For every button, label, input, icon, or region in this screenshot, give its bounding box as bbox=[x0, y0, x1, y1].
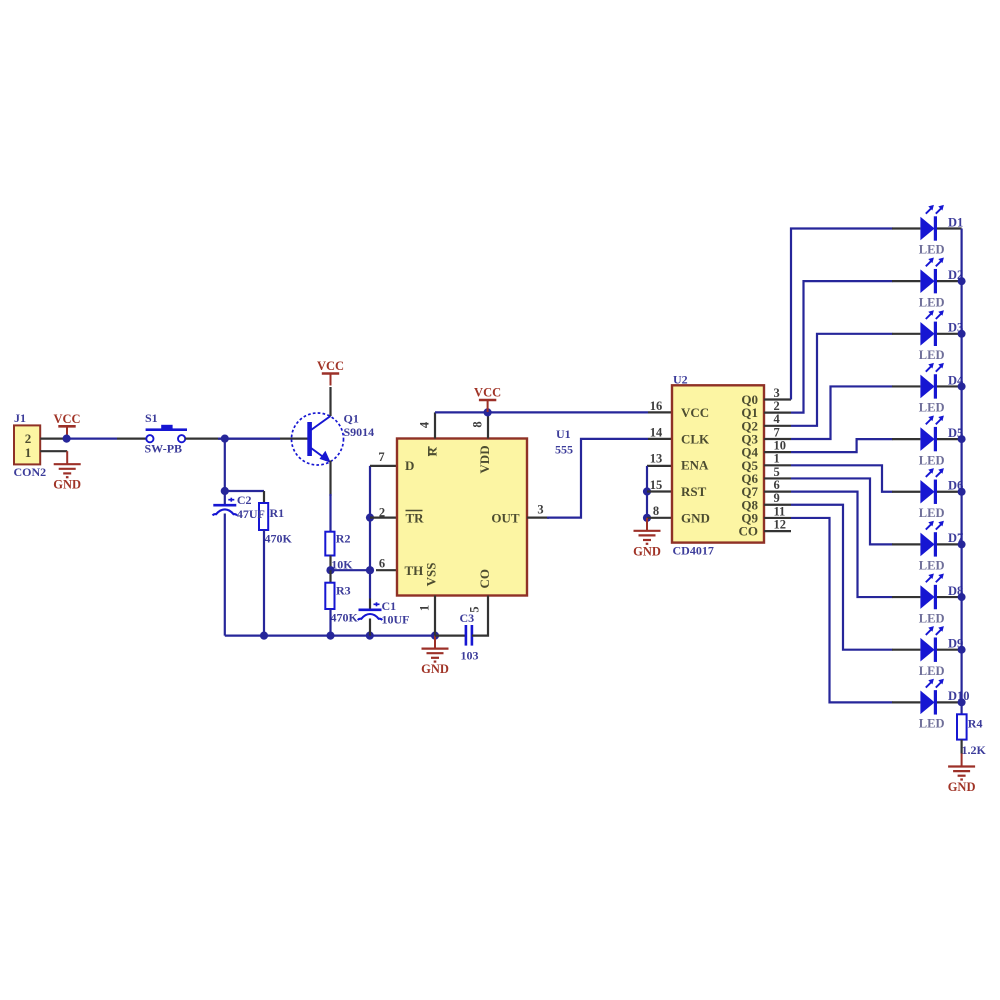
wire Q3 to LED D4 bbox=[791, 386, 893, 439]
svg-text:GND: GND bbox=[421, 662, 449, 676]
wire C2 to rail bbox=[224, 514, 226, 636]
junction C1 rail bbox=[366, 632, 374, 640]
svg-text:2: 2 bbox=[379, 505, 385, 519]
LED D7 bbox=[892, 521, 962, 557]
svg-text:7: 7 bbox=[378, 450, 384, 464]
svg-text:555: 555 bbox=[555, 443, 573, 457]
junction bus bbox=[958, 488, 966, 496]
op-amp U1 555 bbox=[397, 439, 527, 596]
svg-text:VCC: VCC bbox=[317, 359, 344, 373]
junction bus bbox=[958, 382, 966, 390]
svg-text:13: 13 bbox=[650, 452, 663, 466]
wire LED bus bbox=[960, 229, 962, 715]
wire U2 pin 12 stub bbox=[764, 530, 791, 532]
junction RST bbox=[643, 487, 651, 495]
svg-text:D1: D1 bbox=[948, 215, 963, 229]
ground at R4 bbox=[948, 754, 976, 795]
svg-text:3: 3 bbox=[537, 503, 543, 517]
svg-text:CO: CO bbox=[739, 524, 759, 539]
LED D9 bbox=[892, 626, 962, 662]
power VCC at 555 bbox=[474, 386, 501, 413]
svg-text:6: 6 bbox=[774, 478, 780, 492]
svg-text:GND: GND bbox=[53, 478, 81, 492]
wire U2 pin 7 stub bbox=[764, 438, 791, 440]
wire Q8 to LED D9 bbox=[791, 505, 893, 650]
wire R3 to rail bbox=[329, 609, 331, 636]
junction VCC node bbox=[63, 435, 71, 443]
transistor Q1 bbox=[292, 413, 344, 465]
svg-text:D: D bbox=[405, 458, 414, 473]
svg-text:9: 9 bbox=[774, 491, 780, 505]
svg-text:LED: LED bbox=[919, 295, 945, 309]
wire U2 pin 11 stub bbox=[764, 517, 791, 519]
svg-text:GND: GND bbox=[681, 510, 710, 525]
junction base node bbox=[221, 435, 229, 443]
wire Q1 to LED D2 bbox=[791, 281, 893, 413]
wire U2 pin 1 stub bbox=[764, 464, 791, 466]
wire pin8 U2 stub bbox=[647, 517, 672, 519]
svg-text:CD4017: CD4017 bbox=[673, 544, 714, 558]
svg-text:R2: R2 bbox=[336, 531, 351, 545]
wire Q1 base stub bbox=[283, 438, 308, 440]
junction VCC 555 bbox=[484, 408, 492, 416]
svg-text:VCC: VCC bbox=[474, 386, 501, 400]
junction bus bbox=[958, 435, 966, 443]
wire Q5 to LED D6 bbox=[791, 465, 893, 491]
wire node segment bbox=[218, 438, 280, 440]
svg-text:GND: GND bbox=[633, 544, 661, 558]
svg-text:4: 4 bbox=[774, 412, 781, 426]
svg-text:U2: U2 bbox=[673, 373, 688, 387]
LED D4 bbox=[892, 363, 962, 399]
wire U2 pin 9 stub bbox=[764, 504, 791, 506]
wire S1 to node bbox=[185, 438, 283, 440]
junction TH node left bbox=[326, 566, 334, 574]
wire Q0 to LED D1 bbox=[791, 229, 893, 400]
wire C1 top stub bbox=[369, 599, 371, 610]
svg-text:10: 10 bbox=[774, 439, 787, 453]
svg-text:1: 1 bbox=[418, 605, 432, 611]
wire pin6 TH bbox=[376, 569, 397, 571]
svg-text:LED: LED bbox=[919, 243, 945, 257]
svg-text:16: 16 bbox=[650, 399, 663, 413]
capacitor C2 bbox=[213, 498, 238, 516]
resistor R1 bbox=[259, 503, 268, 530]
svg-text:R4: R4 bbox=[968, 717, 983, 731]
svg-text:VDD: VDD bbox=[477, 445, 492, 473]
wire pin16 stub bbox=[648, 411, 672, 413]
LED D5 bbox=[892, 416, 962, 452]
wire D-TR-TH net bbox=[369, 466, 371, 599]
resistor R2 bbox=[325, 532, 334, 556]
svg-text:GND: GND bbox=[948, 780, 976, 794]
svg-text:1.2K: 1.2K bbox=[962, 743, 987, 757]
LED D3 bbox=[892, 310, 962, 346]
svg-text:R3: R3 bbox=[336, 583, 351, 597]
wire VCC top net bbox=[435, 411, 648, 413]
svg-text:10UF: 10UF bbox=[382, 612, 410, 626]
junction C2/R1 node bbox=[221, 487, 229, 495]
svg-text:8: 8 bbox=[471, 421, 485, 427]
wire Q9 to LED D10 bbox=[791, 518, 893, 702]
svg-text:C1: C1 bbox=[382, 599, 397, 613]
power VCC at Q1 bbox=[317, 359, 344, 386]
wire pin1 stub bbox=[434, 596, 436, 636]
wire pin2 TR bbox=[370, 516, 397, 518]
junction bus bbox=[958, 593, 966, 601]
wire C3 to pin5 bbox=[472, 596, 488, 636]
wire to C3 bbox=[435, 634, 466, 636]
svg-text:R: R bbox=[424, 446, 439, 456]
svg-text:J1: J1 bbox=[14, 411, 26, 425]
wire U2 pin 10 stub bbox=[764, 451, 791, 453]
svg-text:3: 3 bbox=[774, 386, 780, 400]
junction R3 rail bbox=[326, 632, 334, 640]
junction GND rail bbox=[431, 632, 439, 640]
LED D10 bbox=[892, 679, 962, 715]
switch S1 bbox=[146, 425, 187, 443]
wire R1 top stub bbox=[263, 491, 265, 503]
wire to S1 pin bbox=[117, 438, 147, 440]
junction R1 rail bbox=[260, 632, 268, 640]
junction bus bbox=[958, 698, 966, 706]
junction TR node bbox=[366, 514, 374, 522]
svg-text:2: 2 bbox=[25, 431, 32, 446]
wire R1 to rail bbox=[263, 530, 265, 636]
junction bus bbox=[958, 646, 966, 654]
wire U2 pin 5 stub bbox=[764, 477, 791, 479]
svg-text:LED: LED bbox=[919, 717, 945, 731]
svg-text:8: 8 bbox=[653, 504, 659, 518]
svg-text:14: 14 bbox=[650, 425, 663, 439]
svg-text:ENA: ENA bbox=[681, 458, 709, 473]
svg-text:103: 103 bbox=[461, 649, 479, 663]
wire OUT to CLK bbox=[547, 439, 648, 518]
wire ENA-RST-GND net bbox=[646, 466, 648, 518]
junction TH node bbox=[366, 566, 374, 574]
svg-text:7: 7 bbox=[774, 425, 780, 439]
wire pin15 stub bbox=[647, 490, 672, 492]
svg-text:CON2: CON2 bbox=[14, 465, 47, 479]
svg-text:S9014: S9014 bbox=[344, 425, 375, 439]
wire pin4 stub bbox=[434, 412, 436, 438]
svg-text:U1: U1 bbox=[556, 427, 571, 441]
wire Q2 to LED D3 bbox=[791, 334, 893, 426]
ground at 555 bbox=[421, 636, 449, 677]
wire to pin6 bbox=[331, 569, 371, 571]
LED D6 bbox=[892, 468, 962, 504]
svg-text:S1: S1 bbox=[145, 411, 158, 425]
wire Q1 collector bbox=[329, 387, 331, 416]
junction GND U2 bbox=[643, 514, 651, 522]
wire emitter to R2 bbox=[329, 494, 331, 532]
wire R2 to node bbox=[329, 556, 331, 571]
capacitor C3 bbox=[466, 625, 472, 646]
svg-text:R1: R1 bbox=[270, 506, 285, 520]
svg-text:2: 2 bbox=[774, 399, 780, 413]
svg-text:LED: LED bbox=[919, 611, 945, 625]
junction bus bbox=[958, 540, 966, 548]
wire J1 pin1 stub bbox=[40, 450, 67, 452]
svg-text:12: 12 bbox=[774, 518, 787, 532]
LED D2 bbox=[892, 258, 962, 294]
svg-text:5: 5 bbox=[774, 465, 780, 479]
wire Q7 to LED D8 bbox=[791, 492, 893, 597]
wire Q1 emitter bbox=[329, 461, 331, 497]
svg-text:LED: LED bbox=[919, 664, 945, 678]
svg-text:VSS: VSS bbox=[423, 563, 438, 587]
connector J1 bbox=[14, 425, 40, 464]
IC U2 CD4017 bbox=[672, 385, 764, 542]
resistor R3 bbox=[325, 583, 334, 609]
svg-text:VCC: VCC bbox=[53, 412, 80, 426]
svg-text:SW-PB: SW-PB bbox=[145, 442, 183, 456]
power VCC at J1 bbox=[53, 412, 80, 439]
svg-text:15: 15 bbox=[650, 478, 663, 492]
svg-text:LED: LED bbox=[919, 506, 945, 520]
wire C1 bottom stub bbox=[369, 619, 371, 636]
ground at J1 bbox=[53, 451, 81, 492]
svg-text:OUT: OUT bbox=[491, 510, 520, 525]
svg-text:470K: 470K bbox=[265, 532, 293, 546]
svg-text:1: 1 bbox=[774, 452, 780, 466]
wire R4 to GND bbox=[960, 740, 962, 754]
wire U2 pin 3 stub bbox=[764, 398, 791, 400]
wire pin8 stub bbox=[487, 412, 489, 438]
svg-text:LED: LED bbox=[919, 559, 945, 573]
svg-text:LED: LED bbox=[919, 348, 945, 362]
junction bus bbox=[958, 330, 966, 338]
wire VCC to S1 bbox=[67, 438, 117, 440]
wire Q6 to LED D7 bbox=[791, 478, 893, 544]
svg-text:CLK: CLK bbox=[681, 431, 710, 446]
svg-text:4: 4 bbox=[418, 421, 432, 428]
svg-text:47UF: 47UF bbox=[237, 507, 265, 521]
svg-text:LED: LED bbox=[919, 453, 945, 467]
svg-text:LED: LED bbox=[919, 401, 945, 415]
wire to R1 top bbox=[225, 490, 264, 492]
svg-text:C3: C3 bbox=[460, 611, 475, 625]
svg-text:470K: 470K bbox=[331, 611, 359, 625]
wire U2 pin 6 stub bbox=[764, 491, 791, 493]
wire pin14 stub bbox=[648, 438, 672, 440]
wire pin3 stub bbox=[527, 516, 549, 518]
svg-text:RST: RST bbox=[681, 484, 707, 499]
wire node to R3 bbox=[329, 570, 331, 583]
LED D1 bbox=[892, 205, 962, 241]
wire ground rail bbox=[225, 634, 435, 636]
wire U2 pin 2 stub bbox=[764, 412, 791, 414]
wire U2 pin 4 stub bbox=[764, 425, 791, 427]
svg-text:TH: TH bbox=[405, 563, 424, 578]
LED D8 bbox=[892, 573, 962, 609]
capacitor C1 bbox=[358, 602, 383, 620]
svg-text:CO: CO bbox=[477, 569, 492, 589]
svg-text:C2: C2 bbox=[237, 493, 252, 507]
resistor R4 bbox=[957, 714, 967, 739]
wire pin7 D bbox=[370, 465, 397, 467]
wire Q4 to LED D5 bbox=[791, 439, 893, 452]
svg-text:11: 11 bbox=[774, 504, 786, 518]
svg-text:TR: TR bbox=[406, 511, 425, 526]
wire J1 pin2 stub bbox=[40, 438, 66, 440]
svg-text:6: 6 bbox=[379, 556, 385, 570]
ground at U2 bbox=[633, 518, 661, 559]
wire node to C2 bbox=[224, 439, 226, 506]
svg-text:Q1: Q1 bbox=[344, 412, 359, 426]
svg-text:1: 1 bbox=[25, 445, 32, 460]
junction bus bbox=[958, 277, 966, 285]
wire pin13 stub bbox=[647, 465, 672, 467]
svg-text:VCC: VCC bbox=[681, 405, 709, 420]
